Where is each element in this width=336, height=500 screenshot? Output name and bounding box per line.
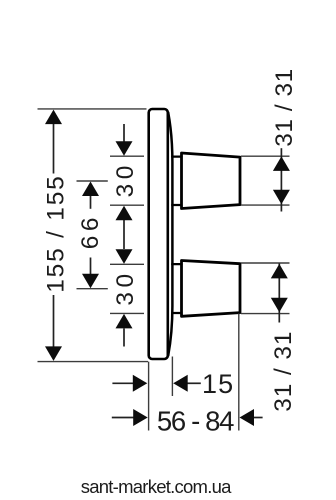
arrowhead 30 lower top (points down) [116, 249, 133, 263]
svg-text:31 / 31: 31 / 31 [270, 331, 297, 412]
extension line upper handle centre [77, 180, 108, 182]
arrowhead 56-84 right (points left) [240, 409, 255, 426]
svg-text:15: 15 [202, 369, 234, 399]
dimension 66 stem lower [90, 258, 92, 276]
escutcheon plate body (side view band) [149, 109, 168, 359]
dimension 56-84 right stem [252, 417, 263, 419]
arrowhead 66 top [82, 182, 99, 197]
upper handle neck top edge [172, 155, 181, 157]
lower handle neck top edge [172, 263, 181, 265]
dimension 56-84 left stem [112, 417, 135, 419]
extension line upper handle top (left) [110, 155, 144, 157]
dimension 31/31 lower stem [278, 264, 280, 323]
svg-text:66: 66 [77, 213, 104, 249]
extension line lower handle top (right) [241, 262, 290, 264]
extension line upper handle bottom (left) [110, 204, 144, 206]
extension line below plate back face [148, 362, 150, 431]
svg-text:56 - 84: 56 - 84 [157, 406, 234, 437]
svg-text:30: 30 [112, 269, 139, 305]
arrowhead 56-84 left (points right) [133, 409, 148, 426]
extension line lower handle centre [77, 288, 108, 290]
arrowhead 31 upper top [273, 156, 290, 171]
dimension 66 stem upper [90, 194, 92, 209]
extension line upper handle top (right) [241, 155, 290, 157]
arrowhead 155 bottom [45, 346, 62, 361]
extension line lower handle top (left) [110, 263, 144, 265]
arrowhead 31 upper bottom [273, 190, 290, 205]
extension line lower handle bottom (right) [241, 313, 290, 315]
extension line plate bottom [38, 361, 149, 363]
arrowhead 15 right (points left) [173, 375, 188, 392]
dimension 155/155 stem lower [53, 295, 55, 348]
dimension 30 upper outer stem [123, 124, 125, 142]
svg-text:31 / 31: 31 / 31 [271, 68, 298, 146]
extension line upper handle bottom (right) [241, 204, 290, 206]
arrowhead 30 upper bottom (points up) [116, 206, 133, 221]
svg-text:155 / 155: 155 / 155 [42, 174, 69, 292]
svg-text:sant-market.com.ua: sant-market.com.ua [81, 476, 232, 497]
dimension 155/155 stem upper [53, 122, 55, 174]
dimension 15 right stem [186, 382, 201, 384]
extension line below dome face [171, 357, 173, 397]
extension line plate top [38, 108, 147, 110]
dimension 30 shared middle stem [123, 220, 125, 249]
arrowhead 30 upper top (points down) [116, 141, 133, 156]
arrowhead 66 bottom [82, 274, 99, 289]
svg-text:30: 30 [112, 161, 139, 197]
dimension 15 left stem [112, 382, 135, 384]
lower handle neck bottom edge [172, 312, 181, 314]
upper handle neck bottom edge [172, 204, 181, 206]
dimension 30 lower outer stem [123, 329, 125, 347]
dome front face curve [168, 113, 172, 356]
arrowhead 155 top [45, 110, 62, 125]
arrowhead 15 left (points right) [133, 375, 148, 392]
lower handle body [182, 261, 241, 317]
arrowhead 31 lower top [271, 264, 288, 279]
arrowhead 31 lower bottom [271, 298, 288, 313]
extension line lower handle bottom (left) [110, 312, 144, 314]
dimension 31/31 upper stem [280, 148, 282, 211]
arrowhead 30 lower bottom (points up) [116, 314, 133, 329]
extension line below handle end [238, 314, 240, 431]
upper handle body [182, 153, 241, 209]
